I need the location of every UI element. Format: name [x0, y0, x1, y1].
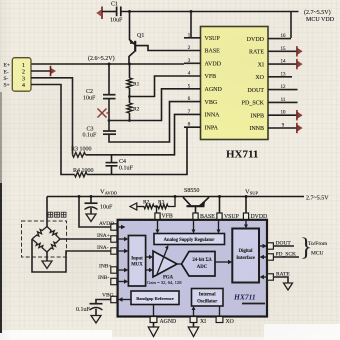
svg-text:E-: E-	[4, 69, 9, 75]
junction 10uF cap (bottom rail)	[90, 195, 93, 198]
arrow BASE into regulator	[192, 220, 196, 234]
pin square INA- (left edge)	[111, 248, 117, 254]
svg-text:10uF: 10uF	[110, 18, 123, 24]
svg-text:R3: R3	[158, 200, 165, 206]
svg-text:RATE: RATE	[249, 50, 264, 56]
wire RATE out	[273, 277, 288, 283]
wire connector pin3 to R3	[31, 78, 73, 155]
capacitor C4	[106, 155, 134, 175]
capacitor C2	[83, 89, 116, 102]
svg-text:BASE: BASE	[200, 214, 215, 220]
pin square AVDD (left edge)	[111, 224, 117, 230]
capacitor 0.1uF (VBG)	[76, 300, 111, 316]
svg-text:VSUP: VSUP	[245, 189, 258, 196]
HX711 block diagram body	[118, 220, 267, 317]
block Analog Supply Regulator	[154, 234, 225, 245]
svg-text:0.1uF: 0.1uF	[119, 166, 134, 172]
ground below 10uF cap	[86, 214, 96, 222]
arrow RATE into block	[260, 275, 268, 279]
pin square VFB (top edge)	[155, 213, 160, 219]
junction Q1 emitter on rail	[128, 10, 131, 13]
svg-text:(2.7~5.5V): (2.7~5.5V)	[304, 9, 331, 16]
pin square INB+ (left edge)	[111, 267, 117, 273]
svg-text:VFB: VFB	[162, 214, 173, 220]
svg-text:AGND: AGND	[160, 319, 177, 325]
pin square DVDD (top edge)	[243, 213, 248, 219]
svg-text:INPB: INPB	[250, 113, 264, 119]
pin square VSUP (top edge)	[217, 213, 222, 219]
svg-text:HX711: HX711	[233, 293, 256, 302]
wire R3 to rail	[168, 197, 175, 207]
wire AVDD net (connector pin1 to IC pin3)	[31, 63, 184, 65]
junction DVDD pin drop (bottom rail)	[245, 195, 248, 198]
no-ERC marker on pin 9	[297, 123, 303, 133]
svg-text:VSUP: VSUP	[205, 36, 221, 42]
svg-text:0.1uF: 0.1uF	[83, 133, 98, 139]
svg-text:INPA: INPA	[205, 125, 219, 131]
svg-text:DOUT: DOUT	[276, 241, 292, 247]
capacitor 10uF (AVDD bypass)	[85, 197, 114, 215]
sensor dashed box	[22, 221, 67, 257]
svg-text:Bandgap Reference: Bandgap Reference	[136, 296, 174, 301]
junction AVDD/Q1-R1	[128, 63, 131, 66]
wire R3 to INNA	[86, 114, 185, 154]
power net label (2.7~5.5V) MCU VDD	[304, 9, 335, 23]
wire PGA to ADC	[177, 263, 182, 265]
svg-text:3: 3	[22, 76, 25, 82]
op-amp U1 HX711 IC body	[201, 27, 269, 140]
wire arrow to R2	[137, 206, 144, 208]
svg-text:13: 13	[281, 72, 287, 77]
wire XO to oscillator	[219, 306, 221, 317]
block Internal Oscillator	[192, 289, 224, 307]
wire DVDD riser pin 16	[290, 12, 292, 39]
junction R1-R2/VFB	[128, 95, 131, 98]
svg-text:}: }	[300, 234, 312, 261]
svg-text:VBG: VBG	[102, 293, 114, 299]
pin 5 AGND stub	[184, 84, 222, 93]
ground below VBG cap	[91, 316, 101, 324]
junction AVDD/C2	[108, 63, 111, 66]
wire C2 to junction	[108, 99, 110, 131]
svg-text:16: 16	[281, 34, 287, 39]
wire C3 to VBG net	[109, 102, 184, 142]
svg-text:1: 1	[22, 63, 25, 69]
pin square XI (bottom edge)	[190, 317, 197, 323]
arrow INA+ into Input MUX	[117, 237, 129, 241]
svg-text:4: 4	[22, 83, 25, 89]
pin 2 BASE stub	[184, 46, 220, 55]
arrow INA- into Input MUX	[117, 249, 129, 253]
svg-text:PD_SCK: PD_SCK	[276, 252, 297, 258]
svg-text:2: 2	[22, 70, 25, 76]
arrow Bandgap to VBG pin	[118, 297, 131, 301]
svg-text:INNB: INNB	[249, 126, 264, 132]
svg-text:INNA: INNA	[205, 113, 221, 119]
svg-text:S+: S+	[4, 83, 10, 89]
svg-text:BASE: BASE	[205, 49, 221, 55]
wire connector pin2 stub	[31, 70, 50, 72]
label sensor (CJK)	[48, 212, 66, 217]
junction R2/AGND	[128, 119, 131, 122]
block 24-bit ADC pentagon	[182, 252, 216, 277]
transistor Q1	[129, 12, 184, 65]
arrow INB+ into Input MUX	[117, 268, 129, 272]
wire AVDD to C2	[108, 64, 110, 95]
wire VFB drop	[156, 207, 158, 214]
wire R4 to INPA	[87, 127, 187, 174]
bridge resistor bottom-left	[32, 239, 47, 252]
arrow PD_SCK into digital interface	[260, 255, 268, 259]
resistor R4	[73, 168, 94, 177]
no-ERC marker on pin2	[51, 66, 57, 76]
svg-text:E+: E+	[4, 63, 10, 69]
no-ERC marker on C1 left terminal	[96, 7, 102, 20]
capacitor C1	[110, 2, 123, 24]
svg-text:R3 1000: R3 1000	[71, 147, 92, 153]
svg-text:14: 14	[281, 60, 287, 65]
svg-text:INA+: INA+	[97, 233, 110, 239]
junction VSUP pin drop (bottom rail)	[218, 195, 221, 198]
no-ERC marker on pin 10	[297, 110, 303, 120]
arrow INB- into Input MUX	[117, 279, 129, 283]
ground XI	[188, 323, 198, 337]
wire VSUP rail main segment	[121, 11, 299, 13]
pin square XO (bottom edge)	[216, 317, 223, 323]
svg-text:DVDD: DVDD	[251, 214, 268, 220]
svg-text:0.1uF: 0.1uF	[76, 307, 91, 313]
wire XI to oscillator	[192, 306, 196, 317]
resistor R2 (divider)	[143, 200, 154, 209]
svg-text:Internal: Internal	[199, 293, 216, 298]
ground AGND	[148, 323, 158, 337]
svg-text:INB+: INB+	[99, 264, 112, 270]
arrow DVDD into digital interface	[244, 220, 248, 229]
svg-text:R1: R1	[133, 82, 140, 88]
svg-text:Analog Supply Regulator: Analog Supply Regulator	[164, 238, 215, 243]
arrow digital interface to DOUT	[259, 244, 267, 248]
wire VSUP rail left segment	[102, 11, 116, 13]
arrow MUX to PGA (upper)	[146, 255, 153, 259]
pin 7 INNA stub	[184, 110, 220, 119]
svg-text:VBG: VBG	[205, 100, 218, 106]
wire DOUT out	[273, 245, 294, 247]
net arrow to AVDD (left open arrow)	[130, 203, 137, 210]
arrow MUX to PGA (lower)	[146, 268, 153, 272]
svg-text:DOUT: DOUT	[247, 88, 264, 94]
ground below RATE	[284, 283, 293, 290]
pin square AGND (bottom edge)	[150, 317, 157, 323]
amplifier PGA triangle	[147, 245, 182, 286]
pin square PD_SCK (right edge)	[267, 254, 273, 260]
svg-text:11: 11	[281, 98, 286, 103]
pin 10 INPB stub	[250, 111, 296, 120]
svg-text:Digital: Digital	[239, 249, 254, 254]
wire VSUP pin drop	[219, 197, 221, 214]
svg-text:INB-: INB-	[98, 275, 109, 281]
arrow VFB into regulator	[156, 220, 160, 234]
wire AVDD drop to AVDD pin	[79, 197, 111, 228]
svg-text:R2: R2	[143, 200, 150, 206]
block Bandgap Reference	[131, 291, 179, 305]
wire VFB net	[130, 76, 185, 97]
svg-text:XI: XI	[200, 319, 206, 325]
svg-text:R4 1000: R4 1000	[73, 168, 94, 174]
svg-text:10uF: 10uF	[83, 96, 96, 102]
pin square RATE (right edge)	[267, 274, 273, 280]
capacitor C3	[83, 127, 117, 139]
resistor R3	[71, 147, 92, 158]
svg-text:R2: R2	[133, 107, 140, 113]
svg-text:10uF: 10uF	[100, 205, 113, 211]
svg-text:ADC: ADC	[197, 265, 208, 270]
svg-text:Oscillator: Oscillator	[197, 300, 218, 305]
wire AGND net	[109, 89, 184, 121]
wire AGND inner stub	[153, 305, 155, 317]
bridge resistor bottom-right	[47, 239, 60, 252]
svg-text:VAVDD: VAVDD	[100, 189, 118, 196]
decorative line inside block	[242, 303, 265, 305]
pin 15 RATE stub	[249, 47, 296, 56]
junction VSUP drop on rail	[190, 10, 193, 13]
svg-text:MCU VDD: MCU VDD	[306, 17, 335, 23]
svg-text:AGND: AGND	[205, 87, 223, 93]
svg-text:C2: C2	[86, 89, 93, 95]
no-ERC marker on pin 15	[297, 46, 303, 56]
svg-text:XI: XI	[258, 62, 264, 68]
svg-text:MCU: MCU	[311, 251, 324, 257]
svg-text:VFB: VFB	[205, 74, 217, 80]
wire DVDD pin drop	[245, 197, 247, 214]
wire PD_SCK out	[273, 256, 299, 258]
pin 14 XI stub	[258, 60, 297, 69]
svg-text:24-bit ΣΔ: 24-bit ΣΔ	[192, 258, 211, 263]
arrow ADC to digital interface	[215, 260, 232, 264]
pin square INB- (left edge)	[111, 278, 117, 284]
no-ERC marker on AGND wire	[98, 109, 111, 118]
svg-text:RATE: RATE	[276, 272, 290, 278]
svg-text:AVDD: AVDD	[205, 62, 222, 68]
svg-text:DVDD: DVDD	[247, 37, 265, 43]
svg-text:PD_SCK: PD_SCK	[242, 101, 265, 107]
resistor R2	[127, 103, 140, 113]
svg-text:To/From: To/From	[308, 241, 328, 247]
svg-text:HX711: HX711	[226, 149, 258, 161]
junction C2-C3/AGND	[108, 119, 111, 122]
connector J1	[12, 58, 31, 91]
resistor R3 (divider)	[158, 200, 168, 209]
block Input MUX	[128, 236, 145, 287]
svg-text:15: 15	[281, 47, 287, 52]
svg-text:VSUP: VSUP	[224, 214, 239, 220]
svg-text:10: 10	[281, 111, 287, 116]
no-ERC marker on pin 14	[297, 59, 303, 69]
pin 11 PD_SCK stub	[242, 98, 298, 107]
wire VSUP power rail (bottom)	[47, 196, 304, 198]
svg-text:2.7~5.5V: 2.7~5.5V	[306, 196, 329, 202]
junction VFB divider	[155, 205, 158, 208]
block Digital Interface	[232, 229, 259, 283]
pin square DOUT (right edge)	[267, 243, 273, 249]
pin 9 INNB stub	[249, 124, 296, 133]
brace To/From MCU	[300, 234, 328, 261]
pin 6 VBG stub	[184, 97, 218, 106]
pin 13 XO stub	[255, 72, 292, 81]
resistor R1	[127, 64, 140, 88]
pin 16 DVDD stub	[247, 34, 291, 43]
svg-text:(2.6~5.2V): (2.6~5.2V)	[88, 55, 115, 62]
svg-text:AVDD: AVDD	[99, 221, 114, 227]
svg-text:S8550: S8550	[184, 188, 199, 194]
svg-text:S-: S-	[4, 76, 9, 82]
svg-text:MUX: MUX	[131, 263, 143, 268]
wire R2-R3 junction to VFB	[154, 206, 158, 208]
pin 3 AVDD stub	[184, 59, 222, 68]
bridge resistor top-right	[47, 227, 60, 240]
pin 1 VSUP stub	[184, 33, 221, 42]
wire R1-R2 junction	[129, 88, 131, 103]
svg-text:C4: C4	[119, 159, 126, 165]
pin square INA+ (left edge)	[111, 236, 117, 242]
pin 4 VFB stub	[184, 72, 216, 81]
svg-text:INA-: INA-	[97, 245, 109, 251]
pin 8 INPA stub	[184, 123, 219, 132]
wire AVDD rail drop to bridge	[46, 197, 48, 227]
arrow AVDD into regulator	[117, 225, 126, 229]
svg-text:Q1: Q1	[137, 33, 144, 39]
svg-text:XO: XO	[226, 319, 234, 325]
connector pin labels E+ E- S- S+	[4, 63, 10, 89]
svg-text:12: 12	[281, 85, 287, 90]
transistor S8550	[183, 188, 209, 214]
svg-text:C1: C1	[111, 2, 118, 8]
wire VSUP drop to pin 1	[190, 12, 192, 38]
pin square VBG (left edge)	[111, 296, 117, 302]
junction AVDD drop (bottom rail)	[78, 195, 81, 198]
pin square BASE (top edge)	[193, 213, 198, 219]
svg-text:Interface: Interface	[236, 256, 255, 261]
wire bridge to INA- (U route)	[32, 239, 111, 272]
pin 12 DOUT stub	[247, 85, 297, 94]
svg-text:Input: Input	[131, 257, 143, 262]
wire connector pin4 to R4	[31, 85, 75, 175]
wire bridge to INA+	[60, 238, 111, 240]
bridge resistor top-left	[32, 227, 47, 240]
ground below bridge	[42, 252, 52, 269]
arrow VSUP into regulator	[217, 220, 221, 234]
svg-text:XO: XO	[255, 75, 264, 81]
wire R2 bottom to AGND net	[129, 113, 131, 121]
junction R3 riser (bottom rail)	[174, 195, 177, 198]
